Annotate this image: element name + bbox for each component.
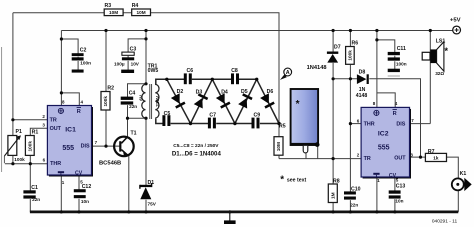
node: P1 top / TR tap [11, 118, 14, 121]
wire: C4 branch from primary top [128, 84, 147, 118]
capacitor C10 [344, 186, 361, 207]
node: rail C12 [77, 210, 80, 213]
svg-text:1k: 1k [433, 156, 439, 161]
svg-text:22n: 22n [32, 197, 40, 202]
svg-text:555: 555 [62, 145, 74, 152]
node: primary bottom / D1 [144, 117, 147, 120]
svg-text:C6: C6 [187, 68, 194, 74]
wire: C12 column [78, 176, 80, 212]
node: IC2 TR / R8 [332, 157, 335, 160]
wire: IC2 THR pin6 [350, 123, 361, 125]
capacitor C4 [121, 91, 138, 110]
svg-text:R4: R4 [132, 3, 139, 9]
svg-text:K1: K1 [460, 171, 467, 177]
capacitor C12 [74, 184, 92, 204]
svg-text:DIS: DIS [81, 144, 90, 150]
node: cascade valley 2 [233, 122, 236, 125]
node: bus D7 [332, 29, 335, 32]
svg-text:C12: C12 [82, 184, 92, 190]
wire: top feedback line from node A down left side [13, 13, 279, 124]
IC1 pin numbers [42, 99, 97, 185]
wire: IC1 DIS pin7 to T1 base [92, 145, 120, 147]
resistor R3 [104, 3, 123, 15]
wire: cascade top rail segment 2 [192, 78, 232, 80]
sensor electrode (see text) [291, 89, 320, 153]
diode D6 [260, 93, 275, 108]
svg-text:R3: R3 [105, 3, 112, 9]
node: T1 collector / C4 [126, 117, 129, 120]
capacitor C2 [72, 47, 91, 72]
wire: protection line through D8 to reset node [333, 79, 420, 157]
wire: IC1 TR pin2 [13, 119, 48, 121]
wire: THR line y=163 [5, 163, 48, 165]
svg-text:THR: THR [50, 161, 61, 167]
node: bus TR1 [144, 29, 147, 32]
svg-text:+5V: +5V [450, 17, 461, 23]
wire: R1 bottom stub [29, 156, 31, 164]
wire: sensor pin stub [305, 153, 307, 158]
node: IC2 THR / C10 [349, 122, 352, 125]
wire: R6 column [349, 31, 351, 124]
diode D5 [238, 93, 253, 108]
node: IC2 OUT / reset loop [419, 156, 422, 159]
svg-text:100n: 100n [80, 61, 91, 66]
svg-text:C9: C9 [254, 113, 261, 119]
svg-text:IC1: IC1 [65, 127, 76, 134]
svg-text:6V: 6V [138, 94, 143, 101]
svg-text:DIS: DIS [396, 121, 405, 127]
svg-text:100k: 100k [27, 141, 32, 152]
diode D4 [216, 93, 231, 108]
svg-text:IC2: IC2 [378, 130, 389, 137]
resistor R8 [328, 178, 339, 202]
node: rail IC1 pin1 [60, 210, 63, 213]
node: bus R2 [104, 29, 107, 32]
wire: IC1 pin8 drop [60, 31, 62, 107]
node: C2 branch [60, 37, 63, 40]
svg-text:1M: 1M [330, 192, 335, 199]
svg-text:22n: 22n [350, 203, 358, 208]
svg-text:C1: C1 [31, 185, 38, 191]
wire: R5 column [278, 124, 280, 159]
wire: cascade diagonal D3 [191, 79, 213, 123]
svg-text:100k: 100k [103, 96, 108, 107]
wire: IC2 DIS pin7 to speaker [410, 123, 430, 125]
wire: IC1 OUT pin3 to R1 top [30, 128, 48, 136]
wire: cascade diagonal D6 [257, 79, 279, 123]
wire: C3 branch [128, 39, 146, 70]
svg-text:LS1: LS1 [436, 38, 446, 44]
capacitor C7 [208, 112, 216, 128]
node: C11 branch [375, 38, 378, 41]
svg-text:*: * [445, 46, 449, 56]
svg-text:4148: 4148 [356, 93, 368, 99]
wire: cascade top rail segment 3 [239, 78, 257, 80]
svg-text:R5: R5 [279, 124, 286, 130]
capacitor C6 [184, 68, 193, 84]
svg-text:75V: 75V [148, 201, 157, 206]
diode D7 1N4148 [307, 44, 341, 71]
svg-text:*: * [296, 99, 300, 110]
wire: T1 emitter drop to rail [128, 156, 130, 212]
svg-text:D7: D7 [334, 44, 341, 50]
wire: sensor line to IC2 TR [279, 158, 362, 160]
svg-text:C2: C2 [80, 47, 87, 53]
connector K1 [452, 171, 472, 191]
node: rail D1 [144, 210, 147, 213]
wire: D1 column [145, 118, 147, 212]
capacitor C5 [162, 111, 170, 126]
node: rail C13 [393, 210, 396, 213]
svg-text:P1: P1 [16, 129, 22, 135]
svg-text:C5: C5 [164, 111, 171, 117]
IC2 pin numbers [357, 101, 414, 183]
svg-text:C4: C4 [129, 91, 136, 97]
svg-text:TR: TR [364, 156, 371, 162]
node: bus IC2 pin8 [375, 29, 378, 32]
ground rail [30, 211, 458, 214]
wire: IC2 pin1 ground drop [376, 178, 378, 212]
transformer TR1 [138, 63, 160, 119]
svg-text:100n: 100n [396, 61, 407, 66]
svg-text:CV: CV [75, 171, 83, 177]
svg-text:100k: 100k [348, 50, 353, 61]
svg-text:555: 555 [378, 144, 390, 151]
wire: TR1 primary feed from bus [145, 31, 147, 85]
resistor R1 [25, 130, 38, 156]
svg-text:C11: C11 [397, 46, 406, 52]
node: rail IC2 pin1 [375, 210, 378, 213]
svg-text:10n: 10n [81, 199, 89, 204]
svg-text:230V: 230V [155, 95, 160, 107]
node: P1 bottom THR [11, 162, 14, 165]
wire: T1 collector riser [127, 118, 129, 138]
svg-text:C3: C3 [130, 46, 137, 52]
wire: speaker column [429, 31, 431, 124]
wire: D7 / R8 column [332, 31, 334, 212]
wire: IC2 pin4 branch [377, 93, 395, 108]
diode D2 [171, 93, 186, 108]
diode D3 [194, 93, 209, 108]
node: cascade peak 2 [255, 78, 258, 81]
svg-text:C10: C10 [351, 186, 361, 192]
resistor R2 [101, 85, 114, 110]
op-amp IC1 555 timer [47, 106, 93, 177]
svg-text:TR: TR [50, 117, 57, 123]
wire: cascade diagonal D4 [212, 79, 235, 123]
svg-text:D4: D4 [221, 90, 228, 96]
svg-text:BC546B: BC546B [99, 161, 121, 167]
svg-text:THR: THR [364, 121, 375, 127]
svg-text:D8: D8 [359, 70, 366, 76]
wire: left vertical to P1 [12, 13, 14, 136]
wire: IC1 pin4 branch [61, 93, 79, 106]
svg-text:D5: D5 [241, 89, 248, 95]
diode D8 1N4148 [356, 70, 369, 99]
probe point A [280, 68, 292, 80]
node: cascade top tap [165, 78, 168, 81]
svg-text:10n: 10n [395, 199, 403, 204]
svg-text:10M: 10M [137, 10, 146, 15]
wire: P1 bottom stub [12, 156, 14, 164]
capacitor C9 [252, 113, 261, 129]
svg-text:R: R [77, 109, 81, 115]
svg-text:100k: 100k [14, 157, 25, 162]
loudspeaker LS1 [422, 38, 448, 76]
svg-text:040291 - 11: 040291 - 11 [432, 218, 458, 224]
wire: C1 branch down to ground rail [29, 164, 31, 212]
zener diode D1 75V [139, 180, 157, 207]
svg-text:R: R [393, 111, 397, 117]
node: cascade valley 1 [189, 122, 192, 125]
svg-text:32Ω: 32Ω [435, 71, 444, 76]
node: R1 bottom / C1 [29, 162, 32, 165]
svg-text:A: A [286, 70, 290, 76]
wire: R2 column [105, 31, 107, 147]
capacitor C13 [389, 184, 406, 204]
node: R6 bottom [349, 77, 352, 80]
svg-text:D2: D2 [177, 89, 184, 95]
svg-text:10M: 10M [276, 142, 281, 151]
svg-text:C7: C7 [209, 112, 216, 118]
node: cascade peak 1 [211, 78, 214, 81]
svg-text:C13: C13 [396, 184, 406, 190]
wire: IC2 pin8 drop [376, 31, 378, 108]
wire: cascade diagonal D2 [167, 79, 191, 123]
wire: IC1 pin1 ground drop [60, 176, 62, 212]
node: R2 / T1 base [104, 145, 107, 148]
resistor R5 [274, 124, 286, 156]
resistor R6 [346, 41, 359, 65]
node: C3 branch [144, 37, 147, 40]
wire: C10 column [349, 124, 351, 212]
svg-text:OUT: OUT [50, 126, 62, 132]
capacitor C11 [388, 46, 407, 77]
wire: C13 column [394, 178, 396, 212]
svg-text:T1: T1 [131, 131, 137, 137]
svg-text:R6: R6 [352, 41, 359, 47]
node: IC1 pin4 branch [60, 91, 63, 94]
wire: C2 branch [61, 39, 78, 70]
node: rail C10 [349, 210, 352, 213]
wire: cascade bottom rail segments [171, 123, 279, 125]
svg-text:D3: D3 [196, 90, 203, 96]
svg-text:D1...D6 = 1N4004: D1...D6 = 1N4004 [172, 150, 222, 157]
svg-text:1N4148: 1N4148 [307, 65, 327, 71]
wire: K1 bottom drop [457, 191, 459, 212]
svg-text:0W5: 0W5 [148, 68, 159, 74]
node: rail T1 emitter [127, 210, 130, 213]
wire: +5V supply bus [61, 30, 453, 32]
node: rail R8 [332, 210, 335, 213]
svg-text:C8: C8 [231, 68, 238, 74]
wire: cascade diagonal D5 [235, 79, 257, 123]
page edge artifact line [1, 47, 3, 172]
wire: secondary bottom to cascade [156, 119, 164, 124]
svg-text:see text: see text [287, 178, 307, 184]
+5V supply terminal [450, 17, 461, 34]
wire: sensor corner drop [317, 145, 319, 159]
svg-text:22n: 22n [129, 104, 137, 109]
op-amp IC2 555 timer [361, 107, 411, 178]
svg-text:R7: R7 [428, 149, 435, 155]
svg-text:10V: 10V [131, 62, 140, 67]
wire: T1 collector junction to primary bottom [128, 117, 147, 119]
wire: IC2 OUT pin3 through R7 to K1 [410, 157, 458, 179]
node: cascade valley 3 / R5 [277, 122, 280, 125]
svg-text:D6: D6 [267, 89, 274, 95]
resistor R7 [425, 149, 446, 162]
transistor T1 [99, 131, 137, 167]
node: primary top / C4 [144, 82, 147, 85]
svg-text:C5...C8 = 22n / 250V: C5...C8 = 22n / 250V [173, 143, 219, 149]
node: bus LS1 [429, 29, 432, 32]
node: D7-D8 junction [332, 77, 335, 80]
capacitor C8 [231, 68, 239, 84]
wire: secondary top to cascade [156, 79, 185, 85]
potentiometer P1 [4, 129, 25, 163]
node: bus R6 [349, 29, 352, 32]
svg-text:*: * [280, 174, 284, 185]
wire: C11 branch [377, 40, 395, 69]
svg-text:100µ: 100µ [114, 62, 125, 67]
ground symbol on rail [224, 210, 236, 224]
svg-text:R2: R2 [107, 85, 114, 91]
svg-text:10M: 10M [109, 10, 118, 15]
resistor R4 [132, 3, 151, 15]
capacitor C3 electrolytic [114, 46, 140, 73]
svg-text:R8: R8 [333, 178, 340, 184]
svg-text:OUT: OUT [394, 155, 406, 161]
svg-text:R1: R1 [32, 130, 39, 136]
svg-text:D1: D1 [148, 180, 155, 186]
capacitor C1 [23, 185, 40, 202]
